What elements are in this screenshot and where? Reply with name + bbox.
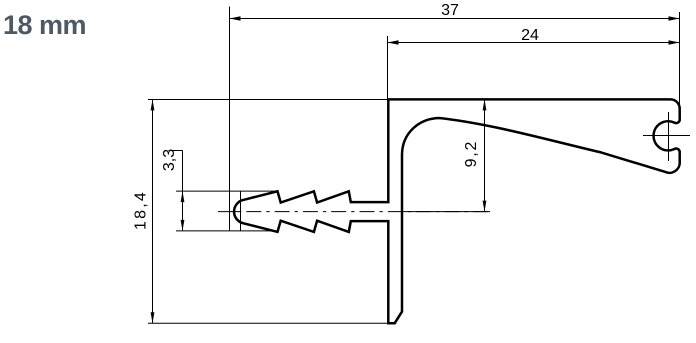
arrow 18,4 top — [151, 99, 155, 110]
arrow 3,3 bottom — [181, 220, 185, 231]
arrow 3,3 top — [181, 191, 185, 202]
dim 3,3 top tick — [169, 150, 183, 152]
arrow 9,2 top — [483, 99, 487, 110]
dim 37 ext line left — [229, 7, 231, 232]
arrow 9,2 bottom — [483, 201, 487, 212]
arrow 24 right — [669, 40, 680, 44]
port centerline vertical — [668, 112, 670, 161]
dim 9,2 line — [484, 99, 486, 211]
dim 3,3 ext bottom — [176, 230, 278, 232]
svg-text:9,2: 9,2 — [463, 140, 480, 168]
title label 18 mm — [3, 10, 86, 41]
dim 18,4 ext top — [148, 99, 388, 101]
arrow 37 right — [669, 16, 680, 20]
nose tangent ext line — [240, 191, 242, 231]
svg-text:37: 37 — [441, 2, 459, 19]
svg-text:18,4: 18,4 — [133, 190, 150, 230]
svg-text:3,3: 3,3 — [161, 149, 178, 171]
dim 37/24 ext line right — [679, 12, 681, 108]
barb centerline solid lead-in through nose — [218, 211, 241, 213]
dim 18,4 line — [152, 99, 154, 323]
arrow 18,4 bottom — [151, 312, 155, 323]
barb centerline (dash-dot) — [246, 211, 490, 213]
port centerline horizontal — [643, 135, 690, 137]
arrow 37 left — [230, 16, 241, 20]
dim 24 line — [388, 42, 680, 44]
dim 24 ext line left — [387, 36, 389, 99]
svg-text:24: 24 — [521, 27, 539, 44]
dim 37 line — [230, 18, 680, 20]
dim 3,3 line — [182, 151, 184, 231]
profile outline (thick) — [234, 99, 680, 323]
dim 18,4 ext bottom — [148, 322, 395, 324]
arrow 24 left — [388, 40, 399, 44]
dim 3,3 ext top — [176, 190, 278, 192]
dim 9,2 ext line (centerline reference) — [402, 211, 490, 213]
